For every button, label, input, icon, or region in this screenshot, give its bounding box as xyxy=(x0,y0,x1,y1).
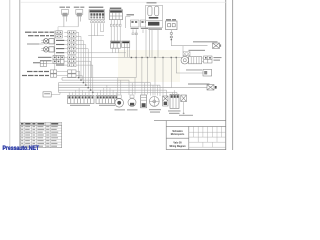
title block revision grid xyxy=(189,126,226,147)
harness row 6 connector xyxy=(68,51,76,54)
wire color code table xyxy=(20,122,62,147)
CDI connector box 1 xyxy=(111,41,121,48)
ignition switch label xyxy=(127,14,135,15)
ignition switch sub label 1 xyxy=(131,28,139,29)
wire to right turn signal xyxy=(171,45,207,47)
wire below engine stop switch xyxy=(183,102,185,113)
harness row 5 label xyxy=(56,48,64,49)
horn xyxy=(115,99,124,108)
harness row 1 wire xyxy=(64,31,67,33)
harness row 7 wire xyxy=(64,56,68,58)
wires below CDI xyxy=(113,48,130,58)
border frame right inner line xyxy=(225,0,227,150)
svg-text:Pressauto.NET: Pressauto.NET xyxy=(3,145,40,150)
headlight bulb 1 pins xyxy=(41,40,43,42)
verticals bus to engine components xyxy=(118,46,183,96)
wire drops from handlebar connector xyxy=(88,23,104,77)
harness row 3 label xyxy=(56,40,64,41)
headlight lo beam label xyxy=(28,35,34,36)
left rear turn signal lamp xyxy=(207,85,217,90)
magneto lead label xyxy=(22,75,27,76)
svg-text:Wiring Diagram: Wiring Diagram xyxy=(170,145,186,148)
harness row 8 connector xyxy=(68,60,76,63)
wire from fuse down xyxy=(170,30,172,46)
fuse wire terminal marks xyxy=(170,33,172,35)
ignition coil lead connector xyxy=(50,70,76,73)
flasher relay label xyxy=(127,109,138,110)
throttle connector pins xyxy=(111,20,120,25)
harness row 5 connector xyxy=(68,47,76,50)
accessory strip 2 label xyxy=(99,105,115,106)
wire to brake light xyxy=(176,58,203,74)
throttle housing connector block xyxy=(110,10,123,20)
oil level sensor xyxy=(163,96,168,106)
harness row 4 wire xyxy=(64,44,67,46)
harness row 3 wire xyxy=(64,40,67,42)
rear tail light label xyxy=(189,50,206,51)
right rear turn signal lamp xyxy=(213,43,222,48)
CDI connector box 2 xyxy=(122,41,130,48)
harness row 6 label xyxy=(56,52,64,53)
speedometer label xyxy=(38,57,52,58)
wire tail lamp to speedo xyxy=(47,63,53,65)
harness row 2 wire xyxy=(64,35,67,37)
accessory strip 2 xyxy=(96,96,118,104)
harness spine wire xyxy=(54,31,56,78)
headlight hi beam label xyxy=(25,32,32,33)
tail light connector side label xyxy=(214,57,222,58)
left turn signal label xyxy=(188,83,210,84)
starter motor relay block xyxy=(170,94,179,108)
right turn signal label xyxy=(193,41,218,42)
harness row 1 terminal box xyxy=(56,31,63,34)
regulator rectifier xyxy=(141,95,147,108)
horn stem xyxy=(117,95,121,98)
front left turn signal label xyxy=(60,7,66,8)
ignition switch contact box 1 xyxy=(130,20,139,27)
handlebar connector block xyxy=(89,10,105,20)
long vertical from ignition switch xyxy=(135,31,137,78)
accessory strip 2 contacts xyxy=(97,96,117,98)
harness row 8 wire xyxy=(64,60,68,62)
frame ground strip 1 xyxy=(68,96,95,104)
ignition switch contact box 2 xyxy=(140,20,148,27)
wire ignition feed xyxy=(126,6,152,28)
border frame top line xyxy=(20,1,226,3)
harness row 2 connector xyxy=(68,35,76,38)
harness row 7 connector xyxy=(68,56,76,59)
speedometer connector block xyxy=(53,56,64,64)
battery top label xyxy=(147,2,157,3)
ignition coil lead label xyxy=(27,71,33,72)
front left turn signal pins xyxy=(64,16,67,26)
wire to left rear turn signal xyxy=(171,87,207,89)
border frame right outer line xyxy=(232,0,234,150)
ignition switch label xyxy=(149,109,161,110)
harness row 9 label xyxy=(56,64,64,65)
headlight pointer arrow xyxy=(40,43,44,45)
handlebar connector pin terminals xyxy=(91,21,105,23)
harness row 5 wire xyxy=(64,48,67,50)
front right turn signal label xyxy=(74,7,80,8)
ignition switch assembly xyxy=(149,97,159,107)
border frame left inner line xyxy=(9,0,11,150)
throttle connector pin terminals xyxy=(110,24,121,26)
engine stop switch xyxy=(181,95,187,102)
horn label xyxy=(115,109,126,110)
tail lamp cluster label xyxy=(33,62,40,63)
throttle housing connector label xyxy=(110,8,122,9)
harness row 2 terminal box xyxy=(56,35,63,38)
scan tint xyxy=(118,50,180,82)
wires below ignition switch xyxy=(133,29,146,33)
starter solenoid coil loops xyxy=(148,6,159,16)
headlight pointer label xyxy=(27,43,40,44)
title block outer line xyxy=(154,121,226,150)
brake light label xyxy=(186,69,202,70)
headlight bulb 2 xyxy=(43,47,54,52)
headlight bulb 1 xyxy=(43,39,54,44)
handlebar connector pins xyxy=(92,20,104,22)
starter solenoid outer case xyxy=(146,5,163,27)
wire drops from throttle connector to CDI xyxy=(111,27,120,41)
frame ground strip 1 label xyxy=(70,105,90,106)
front left turn signal xyxy=(62,10,69,17)
harness row 4 connector xyxy=(68,43,76,46)
tail lamp cluster connector xyxy=(40,61,46,66)
starter motor relay label xyxy=(168,110,181,111)
starter solenoid body xyxy=(146,21,163,26)
wire auxiliary box to bus xyxy=(51,92,60,94)
magneto lead connector xyxy=(50,74,76,77)
svg-text:Motorsports: Motorsports xyxy=(171,133,185,136)
brake light box xyxy=(203,69,212,76)
junction dots at feed corners xyxy=(78,77,94,93)
harness row 9 wire xyxy=(64,64,67,66)
wire feeds from harness rows to verticals xyxy=(76,32,182,92)
auxiliary box xyxy=(43,92,51,97)
rear tail light bulb xyxy=(181,56,189,64)
ignition switch sub label 2 xyxy=(141,28,148,29)
table header text xyxy=(21,123,58,124)
junction dots on bus xyxy=(131,57,177,58)
wires tail light to connector xyxy=(202,58,204,62)
ignition wire terminals xyxy=(132,33,134,35)
main harness bus lines xyxy=(59,78,178,93)
harness row 6 wire xyxy=(64,52,67,54)
harness row 3 connector xyxy=(68,39,76,42)
frame ground strip 1 contacts xyxy=(68,96,93,98)
front right turn signal xyxy=(76,10,83,17)
rear tail light connector xyxy=(204,56,212,63)
wires bus to strip 2 xyxy=(98,85,117,95)
rear tail light body xyxy=(189,57,202,64)
engine stop switch label xyxy=(179,115,193,116)
headlight bulb 2 pins xyxy=(41,48,43,50)
flasher relay xyxy=(128,98,136,106)
table data text xyxy=(21,126,58,147)
border frame left outer line xyxy=(19,0,21,150)
flasher relay top xyxy=(130,95,134,98)
harness row 1 connector xyxy=(68,31,76,34)
starter solenoid label xyxy=(148,28,162,29)
wires bus to strip 1 xyxy=(69,88,92,96)
front right turn signal pins xyxy=(78,16,81,26)
wires below solenoid xyxy=(149,28,158,58)
main fuse label xyxy=(166,19,171,20)
wire from turn signals down-left xyxy=(58,27,78,31)
harness row 9 connector xyxy=(68,63,76,66)
vertical from solenoid to bus xyxy=(145,33,147,58)
main fuse box xyxy=(166,21,177,30)
rear light connector with X xyxy=(183,52,190,56)
handlebar connector label xyxy=(89,7,104,8)
harness row 4 label xyxy=(56,44,64,45)
battery label plate xyxy=(149,17,159,19)
